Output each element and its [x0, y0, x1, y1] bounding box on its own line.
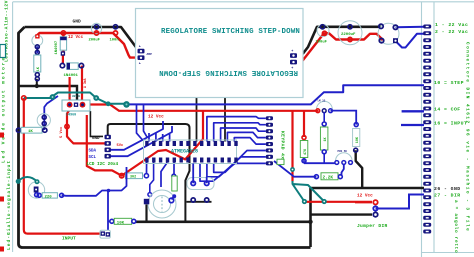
LED D3 yellow — [28, 182, 44, 198]
diode D1 1N4007 vertical — [61, 31, 65, 35]
svg-text:220: 220 — [45, 195, 53, 199]
marker box M1 — [277, 159, 284, 164]
wire red feeds to regulator — [68, 77, 70, 103]
wire blue 10K-h to black bus — [109, 220, 111, 222]
svg-text:Led-Giallo-segnale-input: Led-Giallo-segnale-input — [6, 160, 12, 250]
wire black GND verticals into IC — [196, 98, 198, 142]
wire red regulator out to 12V bus — [89, 105, 319, 111]
jumper JP2 DIR pads — [373, 200, 377, 204]
svg-text:47K: 47K — [304, 148, 308, 155]
wire red regulator down across under IC — [87, 111, 203, 176]
via C — [322, 199, 327, 204]
svg-text:+: + — [291, 67, 293, 71]
svg-text:14 = COF: 14 = COF — [434, 107, 461, 113]
wire blue jumper DIR to pin 27 — [376, 195, 425, 209]
svg-text:5Vc: 5Vc — [117, 144, 125, 148]
wire blue transistor chain — [36, 46, 38, 54]
terminal right of box — [290, 53, 297, 58]
wire red jumper feed — [304, 201, 372, 204]
svg-text:0 805 B: 0 805 B — [69, 95, 80, 98]
svg-text:1K: 1K — [28, 130, 33, 134]
wire red drop x292.5 to via — [291, 111, 293, 182]
svg-text:10K: 10K — [117, 221, 125, 225]
via A — [290, 167, 295, 172]
svg-text:2.2K: 2.2K — [323, 176, 334, 181]
wire blue connector pin 14 — [402, 110, 424, 112]
capacitor C2 100n — [113, 25, 117, 29]
wire teal left link — [24, 93, 127, 104]
svg-text:1N4001: 1N4001 — [64, 74, 79, 78]
svg-text:GND: GND — [92, 137, 100, 141]
wire red diode chain down — [62, 33, 65, 64]
svg-text:100n: 100n — [110, 39, 120, 43]
terminal left of box — [138, 49, 145, 54]
svg-text:Jumper DIR: Jumper DIR — [357, 223, 388, 229]
wire blue resistor row link — [304, 162, 335, 164]
svg-text:+: + — [139, 63, 141, 67]
led stubs at left edge — [0, 133, 4, 138]
wire red right of title box to bridge — [294, 33, 382, 61]
diode D2 1N4001 horizontal — [61, 51, 65, 55]
svg-text:16 = INPUT: 16 = INPUT — [434, 121, 467, 127]
transistor Q1 TO-92 — [32, 35, 43, 46]
wire blue main bus — [127, 85, 425, 104]
svg-text:a = angolo retto: a = angolo retto — [453, 200, 458, 253]
resistor R5 47K vertical — [302, 136, 306, 140]
svg-text:Connettore DIN 41612 96 vie -: Connettore DIN 41612 96 vie - Maschio - … — [465, 42, 470, 232]
svg-text:12 Vcc: 12 Vcc — [68, 36, 84, 40]
svg-text:2 - 22 Vac: 2 - 22 Vac — [435, 29, 468, 35]
wire black bottom bus — [136, 221, 311, 224]
resistor R8 2.2K — [314, 175, 318, 179]
svg-text:26 - GND: 26 - GND — [434, 186, 461, 192]
wire teal to LED — [18, 177, 37, 182]
wire red 5V down-left from regulator — [67, 104, 106, 143]
IC U1 ATMEGA328 — [144, 140, 237, 164]
svg-text:REGOLATORE SWITCHING STEP-DOWN: REGOLATORE SWITCHING STEP-DOWN — [161, 28, 300, 36]
svg-text:SCL: SCL — [89, 156, 97, 160]
wire blue drop to input pads — [107, 191, 109, 233]
teal rings — [22, 96, 26, 100]
svg-text:L4960: L4960 — [66, 114, 76, 118]
svg-text:GND: GND — [73, 19, 82, 25]
wire blue SDA SCL diagonals — [108, 121, 163, 150]
wire black to connector pin 26 GND — [311, 187, 425, 189]
sensor U3 LM35 — [317, 101, 333, 109]
node GND junction — [35, 84, 39, 88]
wire blue connector pin 2 — [396, 34, 425, 48]
resistor R7 10K vertical — [354, 123, 358, 127]
svg-text:12 Vcc: 12 Vcc — [357, 194, 373, 199]
wire black 10K bottom to GND — [356, 150, 363, 188]
wire blue bottom bus — [62, 167, 127, 196]
resistor R1 1K vertical — [34, 55, 41, 72]
wire blue buzzer stub — [171, 196, 174, 199]
wire blue trimmer to 10K — [331, 111, 357, 125]
svg-text:SDA: SDA — [89, 149, 97, 153]
wire black stub transistor resistor to GND — [36, 79, 38, 86]
resistor R4 10K horizontal — [110, 219, 114, 223]
bridge rectifier B1 — [378, 23, 399, 44]
buzzer BZ1 — [148, 190, 176, 218]
svg-text:200uF: 200uF — [89, 39, 101, 43]
capacitor C4 2200uF — [338, 21, 362, 45]
wire black mid vertical — [309, 188, 312, 247]
wire black buzzer to bottom bus — [145, 205, 147, 222]
svg-text:10K: 10K — [356, 136, 360, 143]
svg-text:ATMEGA328: ATMEGA328 — [171, 149, 198, 155]
wire blue left LED chain — [44, 96, 58, 130]
wire red drop x304 — [303, 111, 305, 137]
wire blue 2.2K left to bundle — [274, 161, 316, 177]
connector J3 KEYPAD 4x4 header — [266, 116, 273, 165]
svg-text:302: 302 — [130, 176, 136, 180]
regulator U2 L4960 — [62, 100, 90, 111]
jumper JP1 2x2 pads — [187, 178, 214, 190]
svg-text:LCD I2C 20x4: LCD I2C 20x4 — [87, 162, 119, 167]
wire teal bottom V — [293, 181, 325, 202]
resistor R2 1K horizontal — [16, 128, 20, 132]
wire blue connector pin 1 — [396, 26, 425, 29]
svg-text:INPUT: INPUT — [62, 236, 76, 242]
svg-text:1N4007: 1N4007 — [55, 40, 59, 54]
svg-text:+: + — [291, 50, 293, 54]
wire red bottom-left input — [24, 98, 101, 234]
svg-text:A 3mA: A 3mA — [83, 78, 87, 88]
capacitor C1 200uF — [91, 23, 101, 33]
svg-text:27 - DIR: 27 - DIR — [434, 193, 461, 199]
resistor R6 1K vertical — [323, 112, 325, 163]
svg-text:100uF: 100uF — [316, 40, 328, 44]
svg-text:AMP: AMP — [147, 53, 153, 56]
wire black to jumper DIR bottom pad — [311, 213, 373, 215]
svg-text:10 = STEP: 10 = STEP — [434, 80, 464, 86]
resistor R3 220 — [37, 193, 41, 197]
trimmer P1 5K — [336, 153, 353, 161]
wire black left rail + bottom frame — [19, 27, 311, 248]
svg-text:LM 35: LM 35 — [318, 100, 326, 103]
capacitor C3 100uF — [317, 25, 329, 37]
connector J1 DIN 41612 pins — [423, 25, 431, 234]
svg-text:+: + — [139, 46, 141, 50]
svg-text:POS 5K: POS 5K — [338, 150, 348, 153]
resistor R302 horizontal — [126, 173, 143, 179]
connector J2 LCD I2C 20x4 header — [105, 135, 111, 159]
svg-text:2200uF: 2200uF — [341, 33, 356, 37]
title box — [136, 9, 304, 98]
svg-text:REGOLATORE SWITCHING STEP-DOWN: REGOLATORE SWITCHING STEP-DOWN — [159, 68, 298, 76]
wire black GND branch y86 to regulator — [19, 86, 78, 101]
node black junction — [308, 220, 312, 224]
svg-text:12 Vcc: 12 Vcc — [148, 115, 164, 120]
wire black vertical through IC to jumper pads — [108, 124, 190, 222]
svg-text:KEYPAD 4x4: KEYPAD 4x4 — [280, 131, 286, 163]
svg-text:1 - 22 Vac: 1 - 22 Vac — [435, 22, 468, 28]
via B — [302, 199, 307, 204]
connector stub left edge — [0, 45, 6, 58]
svg-text:Led Verde output motore: Led Verde output motore — [1, 56, 7, 163]
svg-text:5 Vcc: 5 Vcc — [60, 126, 64, 138]
wire black from right title box terminal to top rail — [294, 27, 382, 56]
connector J4 INPUT header — [100, 230, 110, 238]
wire red top rail — [37, 33, 141, 58]
wire blue connector pin 16 — [401, 124, 424, 126]
wire blue below IC diag — [150, 163, 154, 193]
wire blue keypad fan bundle — [149, 117, 266, 182]
wire black top rail to title box left terminal — [25, 27, 142, 52]
